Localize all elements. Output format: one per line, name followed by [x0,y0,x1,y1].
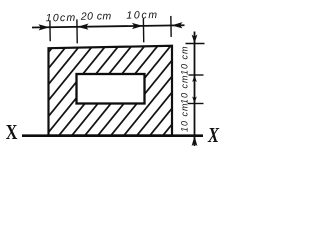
extension line at x=143.5 [142,18,144,42]
svg-text:10cm: 10cm [46,12,77,24]
top dimension line [32,25,184,27]
extension line at x=50 [49,21,51,41]
arrowhead right-pointing at x=143.5 [132,23,143,29]
extension tick at y=43.5 [186,43,205,45]
svg-text:10 cm: 10 cm [179,74,189,104]
rectangular hole [77,74,145,104]
svg-text:10 cm: 10 cm [179,102,189,132]
extension line at x=171 [170,16,172,37]
svg-text:20 cm: 20 cm [80,10,112,22]
extension tick at y=75 [189,74,204,76]
arrowhead left-pointing at x=77 [77,24,88,30]
hatched cross-section body [49,46,173,136]
top dimension group (slightly tilted, hand-drawn) [32,9,185,44]
extension line at x=77 [76,19,78,43]
right dimension group [179,32,204,147]
svg-text:X: X [207,124,219,147]
arrowhead up-pointing below axis line [192,136,198,146]
arrowhead down-pointing at top tick [192,35,198,44]
extension tick at y=103.5 [188,103,204,105]
axis line X-X [22,134,203,137]
vertical dimension line [194,32,196,147]
arrowhead right-pointing at x=50 [38,24,49,30]
small arrowheads at tick y=103.5 [192,97,197,104]
svg-text:10cm: 10cm [126,9,159,21]
svg-text:X: X [6,121,18,144]
small arrowheads at tick y=75 [192,75,197,82]
section outline [49,46,173,136]
arrowhead left-pointing at x=171 [171,22,182,28]
svg-text:10 cm: 10 cm [179,45,189,75]
